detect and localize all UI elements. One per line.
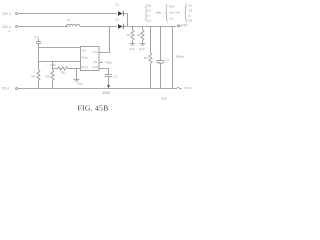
node VIN2 terminal 2 circle — [16, 26, 18, 28]
note brace 2 — [185, 4, 187, 22]
ground under R2 — [140, 43, 145, 45]
wire D1 to junction — [123, 13, 127, 15]
svg-text:R1: R1 — [127, 33, 131, 37]
capacitor C1 bottom lead — [38, 44, 40, 71]
svg-text:7.4k: 7.4k — [50, 63, 56, 67]
capacitor C3 bottom lead — [108, 77, 110, 86]
wire ground rail — [18, 88, 177, 90]
ground under R1 — [130, 43, 135, 45]
capacitor C1 plates — [36, 41, 41, 43]
node VOUT terminal circle — [178, 25, 180, 27]
note brace 1 — [166, 5, 168, 22]
note bracket before column A — [145, 5, 147, 22]
svg-text:5068a: 5068a — [176, 55, 185, 59]
resistor R1 zigzag — [131, 30, 134, 41]
diode D1 — [118, 11, 123, 15]
svg-text:12V o: 12V o — [2, 12, 11, 16]
svg-text:1.5: 1.5 — [169, 16, 174, 20]
resistor R2 stub — [142, 27, 144, 31]
svg-text:R3: R3 — [144, 56, 148, 60]
capacitor C2 curved plate — [157, 62, 165, 63]
resistor R3 bottom lead — [150, 64, 152, 89]
resistor RL load wire — [172, 27, 174, 89]
wire rail2 mid — [80, 26, 117, 28]
svg-text:R6: R6 — [61, 71, 65, 75]
diode D2 — [118, 24, 123, 28]
svg-text:Vin: Vin — [82, 49, 86, 53]
svg-text:Vsw: Vsw — [92, 50, 98, 54]
svg-text:Co: Co — [166, 58, 170, 62]
resistor R1 stub — [132, 27, 134, 31]
svg-text:R1: R1 — [189, 19, 193, 23]
ground stub at R6 — [76, 69, 78, 80]
junction arrowhead to ground rail — [107, 85, 110, 88]
resistor R6 right lead — [68, 68, 81, 70]
resistor R4 zigzag — [37, 70, 40, 81]
wire vertical link diodes — [127, 14, 129, 27]
svg-text:R5: R5 — [46, 75, 50, 79]
svg-text:12V o: 12V o — [2, 25, 11, 29]
svg-text:0V o: 0V o — [2, 87, 9, 91]
inductor L1 — [66, 24, 80, 26]
svg-text:Vo = Vin: Vo = Vin — [169, 10, 181, 14]
svg-text:in: in — [9, 29, 12, 33]
svg-text:5068: 5068 — [103, 91, 110, 95]
svg-text:Io: Io — [147, 14, 150, 18]
svg-text:Prog: Prog — [82, 65, 88, 69]
svg-text:508: 508 — [162, 96, 167, 100]
diode D2 cathode bar — [122, 24, 124, 29]
resistor R5 zigzag — [51, 70, 54, 81]
node GND terminal 3 circle — [16, 88, 18, 90]
svg-text:30V: 30V — [169, 4, 174, 8]
svg-text:0V rtn: 0V rtn — [184, 86, 192, 90]
svg-text:R2: R2 — [189, 9, 193, 13]
capacitor C2 top lead — [160, 27, 162, 61]
capacitor C3 plates — [105, 74, 112, 76]
svg-text:Io: Io — [189, 14, 192, 18]
resistor R6 zigzag horizontal — [58, 67, 69, 70]
wire Vsw riser — [99, 27, 110, 53]
resistor R2 zigzag — [141, 30, 144, 41]
resistor R1 lead — [132, 41, 134, 44]
svg-text:FB: FB — [93, 60, 97, 64]
resistor R6 left lead — [53, 68, 58, 70]
wire Vin feed — [39, 47, 81, 49]
wire FB stub — [99, 62, 103, 64]
svg-text:~FB o: ~FB o — [104, 60, 112, 64]
svg-text:D1: D1 — [115, 2, 119, 6]
node VOUT slash — [181, 25, 183, 27]
resistor R2 lead — [142, 41, 144, 44]
wire freq net — [39, 61, 81, 63]
svg-text:Vin: Vin — [147, 4, 152, 8]
svg-text:1.5: 1.5 — [147, 19, 152, 23]
resistor R3 zigzag — [149, 53, 152, 64]
svg-text:Gnd: Gnd — [78, 81, 84, 85]
svg-text:5.0: 5.0 — [147, 9, 152, 13]
wire rail2 right to output — [123, 26, 176, 28]
svg-text:Gnd: Gnd — [139, 47, 145, 51]
wire rail1 top — [18, 13, 117, 15]
node GND right squiggle — [177, 87, 182, 88]
svg-text:5V: 5V — [184, 24, 189, 28]
resistor R4 bottom lead — [38, 81, 40, 89]
svg-text:Gnd: Gnd — [129, 47, 135, 51]
svg-text:Gnd: Gnd — [92, 65, 98, 69]
svg-text:R2: R2 — [137, 33, 141, 37]
svg-text:L1: L1 — [67, 18, 71, 22]
capacitor C2 top plate — [157, 60, 165, 62]
diode D1 cathode bar — [122, 11, 124, 16]
node VIN terminal 1 circle — [16, 13, 18, 15]
op-amp U1 regulator box — [81, 47, 100, 71]
capacitor C2 bottom lead — [160, 63, 162, 88]
svg-text:Vo: Vo — [189, 4, 193, 8]
svg-text:Freq: Freq — [82, 56, 88, 60]
svg-text:R4: R4 — [32, 75, 36, 79]
ground bars — [74, 79, 80, 81]
svg-text:Max: Max — [156, 11, 162, 15]
resistor R5 bottom lead — [52, 81, 54, 89]
resistor R5 top lead — [52, 62, 54, 71]
wire Gnd pin to cap — [99, 69, 109, 75]
svg-text:FIG. 45B: FIG. 45B — [78, 103, 109, 112]
capacitor C1 top stub — [38, 39, 40, 42]
svg-text:C3: C3 — [114, 74, 118, 78]
svg-text:0.1: 0.1 — [35, 35, 40, 39]
svg-text:D2: D2 — [115, 17, 119, 21]
resistor R3 top lead — [150, 27, 152, 54]
wire rail2 left — [18, 26, 68, 28]
